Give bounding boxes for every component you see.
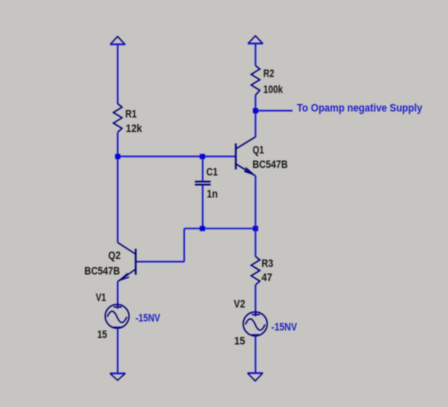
wire right rail top <box>255 44 257 66</box>
wire V2 to ground right <box>255 334 257 373</box>
svg-text:15: 15 <box>234 336 245 348</box>
svg-text:12k: 12k <box>126 123 143 135</box>
svg-text:V2: V2 <box>234 299 246 311</box>
voltage source V2 <box>243 312 267 336</box>
wire R3 to V2 <box>255 285 257 317</box>
svg-text:-15NV: -15NV <box>271 322 297 334</box>
node A junction <box>115 154 120 159</box>
svg-text:R3: R3 <box>262 258 274 270</box>
wire left rail top <box>117 44 119 104</box>
power flag +V left <box>110 37 125 45</box>
wire R2 to Q1 collector <box>255 95 257 137</box>
node D junction emitter R3 <box>253 226 258 231</box>
svg-text:BC547B: BC547B <box>253 159 288 171</box>
ground right <box>248 372 263 374</box>
wire V1 to ground left <box>117 327 119 374</box>
voltage source V1 <box>105 304 129 328</box>
wire Q2 emitter to V1 <box>117 282 119 309</box>
svg-text:47: 47 <box>262 272 273 284</box>
svg-text:1n: 1n <box>207 189 218 201</box>
wire C1 bottom lead <box>202 186 204 229</box>
wire Q2 base horizontal <box>136 261 185 263</box>
svg-text:-15NV: -15NV <box>136 313 161 325</box>
wire tap to opamp <box>256 110 293 112</box>
svg-text:Q1: Q1 <box>253 144 264 156</box>
wire mid horizontal net <box>184 228 255 230</box>
svg-text:BC547B: BC547B <box>84 265 120 277</box>
power flag right base <box>248 43 263 45</box>
svg-text:100k: 100k <box>263 84 283 96</box>
resistor R3 <box>251 256 260 285</box>
wire node D to R3 <box>255 229 257 257</box>
svg-text:Q2: Q2 <box>108 250 120 262</box>
node E junction tap <box>253 108 258 113</box>
resistor R1 <box>113 104 122 133</box>
resistor R2 <box>251 66 260 96</box>
svg-text:R2: R2 <box>263 68 274 80</box>
power flag left base <box>110 43 125 45</box>
svg-text:To Opamp negative Supply: To Opamp negative Supply <box>297 103 423 115</box>
wire R1 to node A <box>117 132 119 156</box>
wire C1 top lead <box>202 156 204 180</box>
wire node A down to Q2 collector <box>117 156 119 242</box>
ground left <box>110 372 125 374</box>
wire mid vertical to Q2 base <box>183 229 185 262</box>
wire Q1 emitter down <box>255 176 257 229</box>
svg-text:15: 15 <box>97 329 107 341</box>
svg-text:C1: C1 <box>206 167 218 179</box>
wire node A to Q1 base <box>118 155 236 157</box>
transistor Q1 <box>236 137 256 176</box>
capacitor C1 <box>195 182 211 185</box>
svg-text:V1: V1 <box>96 292 106 304</box>
node B junction C1 top <box>200 154 205 159</box>
node C junction C1 bottom <box>200 226 205 231</box>
svg-text:R1: R1 <box>125 108 137 120</box>
transistor Q2 <box>118 243 136 282</box>
power flag +V right <box>248 36 263 44</box>
